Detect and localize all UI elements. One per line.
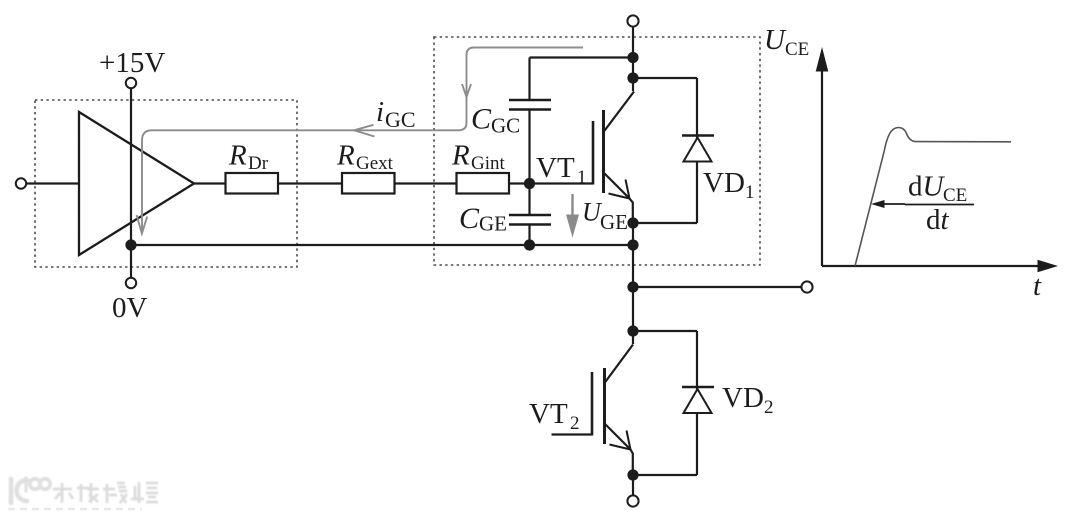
diode VD1 (633, 78, 714, 223)
node: emitter junction (627, 217, 638, 228)
svg-text:C: C (459, 202, 480, 235)
svg-text:0V: 0V (112, 292, 148, 324)
resistor RDr (226, 173, 279, 194)
watermark underline dashes (8, 508, 142, 511)
wire: gate line amp to RDr (194, 182, 226, 184)
capacitor CGE (509, 184, 551, 246)
transistor VT2 (IGBT) (552, 345, 634, 476)
wire: RGint to gate bar (509, 182, 593, 184)
node: VD2 top junction (627, 325, 638, 336)
wire: top rail (632, 27, 634, 91)
node: CGC rail junction (627, 52, 638, 63)
label dUCE/dt fraction (905, 171, 974, 237)
svg-text:Dr: Dr (248, 153, 269, 174)
svg-text:Gext: Gext (356, 153, 394, 174)
svg-text:2: 2 (764, 397, 774, 418)
arrow dUCE/dt pointer (871, 200, 905, 208)
graph axis UCE vertical (816, 47, 829, 266)
node: bottom rail junction (627, 239, 638, 250)
terminal: input (16, 178, 26, 188)
resistor RGint (457, 173, 510, 194)
svg-text:CE: CE (785, 39, 809, 60)
capacitor CGC (509, 58, 551, 184)
terminal: +15V (126, 78, 136, 88)
node: VD2 bottom junction (627, 469, 638, 480)
svg-text:C: C (471, 103, 492, 136)
terminal: top collector (627, 15, 638, 26)
svg-text:dU: dU (908, 171, 946, 203)
node: 0V junction (125, 239, 136, 250)
graph axis t horizontal (822, 260, 1058, 273)
wire: CGC top to collector rail (530, 56, 634, 58)
transistor VT1 (IGBT) (593, 92, 634, 224)
svg-text:VD: VD (722, 382, 764, 414)
dashed box: IGBT module (434, 37, 760, 265)
op-amp driver triangle (79, 112, 194, 255)
dashed box: driver stage (35, 100, 297, 267)
wire: bottom emitter rail (131, 244, 633, 246)
wire: output lead (633, 286, 802, 288)
wire: RDr to RGext (278, 182, 342, 184)
svg-text:1: 1 (577, 167, 587, 188)
svg-text:GC: GC (491, 114, 520, 138)
node: gate node (524, 178, 535, 189)
wire: RGext to RGint (395, 182, 457, 184)
svg-text:Gint: Gint (471, 153, 506, 174)
terminal: 0V (126, 278, 136, 288)
curve UCE waveform (855, 128, 1011, 267)
svg-text:VT: VT (529, 398, 568, 430)
wire: bottom lead (632, 475, 634, 496)
svg-text:R: R (336, 140, 355, 172)
node: output junction (627, 281, 638, 292)
watermark logo (11, 478, 158, 503)
node: CGE bottom junction (524, 239, 535, 250)
svg-text:i: i (376, 96, 384, 128)
svg-text:R: R (228, 140, 247, 172)
svg-text:t: t (1033, 270, 1042, 302)
svg-text:R: R (451, 140, 470, 172)
wire: iGC gray feedback path (137, 48, 583, 234)
svg-text:GC: GC (385, 107, 416, 132)
terminal: bottom emitter (627, 495, 638, 506)
wire: rail emitter to output (632, 223, 634, 344)
svg-text:dt: dt (926, 204, 950, 236)
diode VD2 (633, 331, 714, 475)
svg-text:2: 2 (570, 413, 580, 434)
resistor RGext (342, 173, 395, 194)
arrow UGE (gray) (566, 194, 579, 238)
svg-text:U: U (764, 24, 787, 56)
svg-text:CE: CE (943, 185, 967, 206)
svg-text:GE: GE (479, 212, 507, 236)
wire: input lead (26, 182, 79, 184)
svg-text:VT: VT (536, 152, 575, 184)
svg-text:VD: VD (703, 167, 745, 199)
svg-text:1: 1 (745, 182, 755, 203)
wire: +15V supply vertical (130, 89, 132, 246)
terminal: output (801, 281, 812, 292)
svg-text:GE: GE (600, 210, 628, 234)
svg-text:+15V: +15V (99, 47, 165, 79)
wire: 0V vertical (130, 245, 132, 278)
node: VD1 top junction (627, 72, 638, 83)
